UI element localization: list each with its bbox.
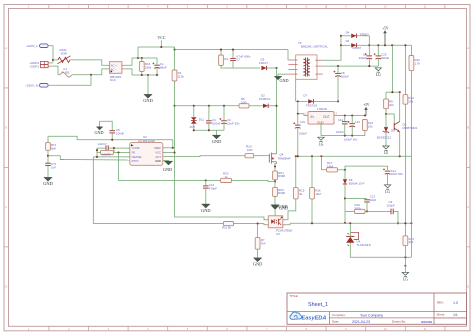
wire R7 bottom lead xyxy=(257,249,259,258)
ground CT1 xyxy=(43,178,53,187)
resistor R12 xyxy=(403,95,414,105)
wire C4 top lead xyxy=(208,106,210,121)
wire RT1 top loop xyxy=(48,136,77,140)
wire bottom rail xyxy=(350,256,411,258)
wire bridge - to gnd bus xyxy=(124,69,132,75)
wire bus riser xyxy=(137,47,139,58)
wire aux gnd bus xyxy=(194,129,224,131)
wire R4 top lead xyxy=(220,50,222,55)
node snub2 xyxy=(232,49,234,51)
wire bridge + to bus xyxy=(124,58,132,65)
wire drain vertical xyxy=(276,68,278,150)
svg-text:VREF: VREF xyxy=(154,146,162,150)
node out c14 xyxy=(344,114,346,116)
ground flag LG reg xyxy=(318,137,324,146)
svg-text:7k4: 7k4 xyxy=(261,241,266,245)
svg-text:10R: 10R xyxy=(247,148,253,152)
wire R11 to opto xyxy=(234,224,265,225)
wire C14 top lead xyxy=(344,116,346,122)
svg-text:Company:: Company: xyxy=(332,313,346,317)
wire TL431 cathode xyxy=(349,223,351,236)
diode D4b xyxy=(346,39,362,50)
net flag ~220V_L xyxy=(26,44,49,48)
svg-text:1/1: 1/1 xyxy=(453,313,458,317)
capacitor C25 xyxy=(374,52,390,59)
wire C5 gnd stem xyxy=(99,121,101,127)
wire C1 top lead xyxy=(156,58,158,65)
resistor R2 xyxy=(101,150,114,156)
svg-text:D5: D5 xyxy=(391,129,395,133)
wire FB rail left xyxy=(93,223,223,225)
node cluster L xyxy=(96,149,98,151)
svg-text:Drawn By:: Drawn By: xyxy=(392,320,406,324)
svg-text:100nF: 100nF xyxy=(116,131,124,135)
capacitor C8 xyxy=(333,71,349,79)
wire RS2 bottom xyxy=(274,196,276,205)
svg-text:470pF: 470pF xyxy=(209,186,217,190)
svg-text:BZX55C12: BZX55C12 xyxy=(377,136,392,140)
wire sec top to D4s xyxy=(323,36,341,60)
wire R9 bottom lead xyxy=(385,109,387,114)
wire rail C xyxy=(175,105,240,107)
node VCC tap xyxy=(160,46,162,48)
node R12 top xyxy=(404,44,406,46)
node R1 railC xyxy=(173,105,175,107)
wire R2 left lead xyxy=(97,152,101,154)
wire C2 top lead xyxy=(232,50,234,59)
resistor RS1 xyxy=(273,171,286,180)
wire R22 long vertical xyxy=(410,71,412,258)
svg-text:2021-04-23: 2021-04-23 xyxy=(352,320,370,324)
svg-text:120pF: 120pF xyxy=(387,204,395,208)
capacitor C1 xyxy=(152,62,166,69)
node reg in xyxy=(297,100,299,102)
svg-text:EasyEDA: EasyEDA xyxy=(302,316,327,322)
resistor R16 xyxy=(139,62,151,72)
wire RT1 to CT1 xyxy=(47,150,49,163)
wire Q3 base link xyxy=(386,114,394,123)
wire R12 bottom xyxy=(404,104,406,223)
node out c12 xyxy=(351,114,353,116)
svg-text:300uF: 300uF xyxy=(359,56,367,60)
svg-text:B6620K_VERTICAL: B6620K_VERTICAL xyxy=(301,45,328,49)
IC U2 UC3844 xyxy=(130,143,163,166)
wire D7 row xyxy=(296,100,308,102)
capacitor C3 xyxy=(219,118,240,126)
wire RS mid xyxy=(274,180,276,188)
resistor R4 snubber xyxy=(219,55,229,66)
node bias q3 xyxy=(399,91,401,93)
resistor R17 xyxy=(327,161,338,172)
wire R16 top lead xyxy=(141,58,143,62)
capacitor C7 xyxy=(98,142,109,151)
wire C2 bottom lead xyxy=(232,61,234,68)
wire R16v top lead xyxy=(311,156,313,187)
wire comp row left v xyxy=(344,210,346,212)
svg-text:R11 5k: R11 5k xyxy=(222,225,231,229)
svg-text:LG: LG xyxy=(376,73,381,77)
svg-text:C15: C15 xyxy=(300,120,306,124)
wire R15 bottom to opto xyxy=(286,199,296,220)
svg-text:22uF 35v: 22uF 35v xyxy=(227,122,240,126)
svg-text:100uF 16v: 100uF 16v xyxy=(344,138,358,142)
wire OUT row xyxy=(163,155,245,158)
svg-text:T8N65MP: T8N65MP xyxy=(278,157,291,161)
node R12 bot xyxy=(404,222,406,224)
wire fuse to bridge AC2 xyxy=(72,69,107,75)
wire R1 top lead xyxy=(174,47,176,70)
wire C6 top lead xyxy=(368,45,370,56)
wire gnd bus xyxy=(132,74,159,76)
title block TITLE text xyxy=(290,294,299,298)
wire aux gnd stem xyxy=(216,130,218,135)
wire Q3 emitter xyxy=(399,132,401,157)
svg-text:B: B xyxy=(467,126,469,130)
ground C13b xyxy=(201,204,211,213)
svg-text:LG: LG xyxy=(384,151,389,155)
capacitor C13 22pF xyxy=(364,195,376,202)
node gnd bus2 xyxy=(147,74,149,76)
wire VCC-pin drop xyxy=(175,106,266,220)
net flag ~220V_N xyxy=(25,84,48,88)
wire VREF riser xyxy=(172,140,174,148)
svg-text:-220P1: -220P1 xyxy=(29,65,39,69)
node railB corner xyxy=(173,49,175,51)
resistor RS2 xyxy=(273,187,286,196)
node bus1 xyxy=(137,57,139,59)
diode D3 xyxy=(259,57,268,70)
wire C11 bottom lead xyxy=(387,173,389,185)
svg-text:1nF: 1nF xyxy=(51,165,56,169)
svg-text:VCC: VCC xyxy=(157,35,166,40)
wire D4b lead xyxy=(341,44,351,46)
node D4 join xyxy=(368,44,370,46)
wire ISENSE wire xyxy=(93,156,130,158)
title block Company xyxy=(332,313,383,317)
resistor R20 xyxy=(221,171,232,182)
svg-text:GND: GND xyxy=(253,262,263,267)
wire R1 bottom run xyxy=(174,81,176,106)
node D7 out xyxy=(337,100,339,102)
svg-text:RTCT: RTCT xyxy=(132,159,139,163)
svg-text:R390: R390 xyxy=(278,191,285,195)
wire RTCT wire xyxy=(60,159,130,162)
wire bias row xyxy=(386,91,400,93)
svg-text:19k4: 19k4 xyxy=(327,165,334,169)
node railD c25 xyxy=(377,44,379,46)
bridge label xyxy=(110,75,121,82)
transistor Q3 xyxy=(394,122,418,132)
wire +5V drop right xyxy=(391,45,393,92)
power flag +5V top xyxy=(382,26,389,45)
wire C25 top lead xyxy=(377,45,379,56)
wire R12 top lead xyxy=(404,45,406,94)
wire R7 top lead xyxy=(257,224,259,238)
node L junction xyxy=(52,59,54,61)
wire C7 left lead xyxy=(97,147,106,149)
node D4a in xyxy=(340,35,342,37)
node auxgnd2 xyxy=(208,129,210,131)
node D4 mid xyxy=(340,44,342,46)
IC U5 label xyxy=(317,107,327,111)
node regb c14 xyxy=(344,135,346,137)
diode D7 xyxy=(304,93,318,107)
svg-text:D: D xyxy=(467,285,469,289)
wire RTCT link xyxy=(48,156,64,160)
title block Sheet cell xyxy=(437,313,458,317)
ground C5 xyxy=(94,127,103,135)
wire cluster right vert xyxy=(113,148,115,152)
node clamp xyxy=(275,67,277,69)
wire primary bottom to gnd xyxy=(278,74,288,76)
svg-text:TITLE:: TITLE: xyxy=(290,294,299,298)
wire gnd stem xyxy=(147,75,149,95)
svg-text:LG: LG xyxy=(403,278,408,282)
svg-text:GND: GND xyxy=(143,98,153,103)
wire C3 top lead xyxy=(223,106,225,121)
MOSFET Q4 xyxy=(269,153,290,164)
U4 label xyxy=(357,239,372,246)
svg-text:LG: LG xyxy=(319,142,324,146)
wire C25 bottom lead xyxy=(377,58,379,66)
node C13b xyxy=(205,179,207,181)
svg-text:GND: GND xyxy=(43,181,53,186)
node regb c12 xyxy=(351,135,353,137)
node RTCT xyxy=(47,155,49,157)
wire R16v bottom lead xyxy=(311,199,313,223)
node C13 bot xyxy=(366,210,368,212)
wire C12 top lead xyxy=(351,116,353,124)
wire R15 top lead xyxy=(295,156,297,187)
svg-text:REV:: REV: xyxy=(437,301,444,305)
svg-text:aauuss: aauuss xyxy=(421,320,433,324)
wire VDR row to bridge AC1 xyxy=(53,59,58,61)
resistor R7 xyxy=(255,238,266,250)
connector pin P1 xyxy=(29,65,49,69)
node isense cluster xyxy=(96,156,98,158)
capacitor C11 xyxy=(383,168,403,176)
wire VREF stub xyxy=(163,147,173,149)
capacitor C12 xyxy=(344,120,360,142)
ground flag LG C11 xyxy=(384,185,390,194)
transformer T2 xyxy=(288,55,323,79)
IC U5 78L05 xyxy=(305,112,337,125)
resistor R10 xyxy=(245,145,254,158)
ground sense xyxy=(271,204,288,209)
wire RT1 riser xyxy=(47,136,49,142)
wire VREF bus xyxy=(77,139,173,141)
node auxgnd1 xyxy=(193,129,195,131)
node railF q3e xyxy=(399,155,401,157)
zener D5 xyxy=(377,127,395,139)
resistor R16v xyxy=(310,188,322,199)
optocoupler U3 xyxy=(265,216,286,228)
svg-text:LG: LG xyxy=(385,190,390,194)
ground flag LG bottom xyxy=(402,272,408,281)
capacitor C9 xyxy=(387,200,395,214)
svg-text:U3: U3 xyxy=(276,232,280,236)
wire opto to rail G xyxy=(286,223,290,225)
wire reg in branch xyxy=(298,114,308,116)
capacitor C16 xyxy=(293,120,307,136)
node railC c4 xyxy=(208,105,210,107)
svg-text:D10: D10 xyxy=(110,78,116,82)
wire rail D xyxy=(369,44,411,46)
svg-text:D4: D4 xyxy=(346,30,350,34)
title block grid xyxy=(287,293,467,324)
svg-text:GND: GND xyxy=(279,206,288,211)
svg-text:Sheet_1: Sheet_1 xyxy=(308,302,328,308)
svg-text:250k: 250k xyxy=(145,66,152,70)
power flag +5V reg xyxy=(363,103,370,116)
wire C6 bottom lead xyxy=(368,58,370,66)
svg-text:GND: GND xyxy=(163,167,172,172)
svg-text:D4: D4 xyxy=(346,39,350,43)
svg-text:C: C xyxy=(5,205,7,209)
svg-text:FR07US: FR07US xyxy=(306,103,317,107)
wire D2 to drain node xyxy=(268,105,276,107)
svg-text:C14: C14 xyxy=(338,118,344,122)
node railF r17 xyxy=(320,155,322,157)
wire bus top link xyxy=(132,57,157,59)
node railC d11 xyxy=(193,105,195,107)
capacitor C14 xyxy=(336,118,348,134)
svg-text:Sheet:: Sheet: xyxy=(437,313,446,317)
node drain aux xyxy=(275,105,277,107)
svg-text:10k: 10k xyxy=(368,124,373,128)
wire loop to R20 xyxy=(206,179,221,181)
wire D6 down xyxy=(344,184,346,223)
svg-text:2k2: 2k2 xyxy=(389,103,394,107)
node C13 tap xyxy=(344,197,346,199)
svg-text:B260A-13-F: B260A-13-F xyxy=(349,181,365,185)
resistor RT1 xyxy=(46,143,57,151)
wire R16 bottom lead xyxy=(141,72,143,76)
wire COMP wire xyxy=(114,147,130,149)
wire comp row mid xyxy=(365,210,391,212)
svg-text:68uF: 68uF xyxy=(160,66,167,70)
svg-text:113k: 113k xyxy=(178,75,185,79)
wire D5 top lead xyxy=(385,114,387,127)
wire D2 lead left xyxy=(262,105,263,107)
svg-text:20k: 20k xyxy=(409,99,414,103)
node comp right xyxy=(397,222,399,224)
ground U2 xyxy=(163,161,173,172)
svg-text:L78L05: L78L05 xyxy=(317,107,327,111)
node out 5v xyxy=(364,114,366,116)
wire Q3 collector xyxy=(399,92,401,121)
wire C3 bottom lead xyxy=(223,123,225,130)
wire R21 bottom lead xyxy=(364,131,366,136)
resistor R1 xyxy=(172,70,184,81)
svg-text:D7: D7 xyxy=(304,93,308,97)
svg-text:562k: 562k xyxy=(355,207,362,211)
wire C1 bottom lead xyxy=(156,67,158,75)
wire reg gnd drop xyxy=(320,124,322,136)
svg-text:C2: C2 xyxy=(236,58,240,62)
power flag VCC xyxy=(157,35,166,47)
node VCC pin tap xyxy=(173,152,175,154)
wire C5 top loop xyxy=(100,121,113,130)
TVS D11 xyxy=(190,117,205,129)
wire rail B to primary top xyxy=(287,50,289,60)
wire snubber bottom xyxy=(221,66,260,69)
svg-text:VDR: VDR xyxy=(61,52,68,56)
wire reg gnd bus xyxy=(321,135,365,137)
svg-text:1uF/C7: 1uF/C7 xyxy=(98,142,108,146)
resistor R9 xyxy=(384,99,394,109)
capacitor C5 xyxy=(109,128,124,135)
svg-text:100nF: 100nF xyxy=(212,122,221,126)
ground primary pin xyxy=(274,77,288,84)
svg-text:COMP: COMP xyxy=(132,146,140,150)
wire D11 bottom lead xyxy=(193,124,195,131)
node LG bottom xyxy=(404,256,406,267)
title block sheet name xyxy=(308,302,328,308)
wire CT1 bottom lead xyxy=(47,165,49,177)
wire cluster left vert xyxy=(96,148,98,157)
resistor R15v xyxy=(293,188,304,199)
resistor R19 xyxy=(355,203,366,213)
wire R10 to gate xyxy=(254,155,270,157)
wire D4a lead xyxy=(341,35,351,37)
wire C13b top lead xyxy=(205,180,207,186)
resistor R22 xyxy=(409,56,421,71)
wire R9 top lead xyxy=(385,92,387,99)
wire C16 top lead xyxy=(297,114,299,125)
svg-text:GND: GND xyxy=(155,159,161,163)
node railG r13 xyxy=(410,222,412,224)
wire R2 right lead xyxy=(112,152,115,154)
EasyEDA logo xyxy=(290,312,326,322)
node bus2 xyxy=(141,57,143,59)
wire L-flag to junction xyxy=(48,46,53,63)
svg-text:300uF: 300uF xyxy=(381,56,389,60)
wire C8 top lead xyxy=(337,66,339,73)
svg-text:Date:: Date: xyxy=(332,320,339,324)
ground primary bus xyxy=(143,95,153,104)
optocoupler U3 label xyxy=(276,229,292,236)
transformer T2 label xyxy=(298,41,328,49)
svg-text:100nF: 100nF xyxy=(299,132,307,136)
node gnd bus3 xyxy=(156,74,158,76)
ground flag LG sec xyxy=(375,68,381,77)
wire C14 bottom lead xyxy=(344,124,346,136)
wire P2 to junction xyxy=(50,62,54,64)
node snub1 xyxy=(220,49,222,51)
svg-text:GND: GND xyxy=(94,130,103,135)
svg-text:18uF 50v: 18uF 50v xyxy=(391,172,404,176)
wire C7 right lead xyxy=(108,147,114,149)
node bias drop xyxy=(391,91,393,93)
wire R13 top lead xyxy=(404,223,406,236)
wire P1 to fuse xyxy=(50,66,61,75)
node R9 bot xyxy=(385,113,387,115)
node railD r xyxy=(391,44,393,46)
wire N flag to fuse row xyxy=(48,75,91,86)
capacitor C4 xyxy=(206,118,220,125)
svg-text:C: C xyxy=(467,205,469,209)
svg-text:100nF: 100nF xyxy=(336,130,344,134)
capacitor C13b 470pF xyxy=(203,183,217,190)
svg-text:10R: 10R xyxy=(241,101,247,105)
wire FB loop2 xyxy=(119,153,206,181)
node comp left xyxy=(344,222,346,224)
svg-text:22pF: 22pF xyxy=(370,198,377,202)
node N junction xyxy=(90,74,92,76)
wire C8 bottom lead xyxy=(337,76,339,102)
wire rail E sec gnd xyxy=(323,65,379,67)
